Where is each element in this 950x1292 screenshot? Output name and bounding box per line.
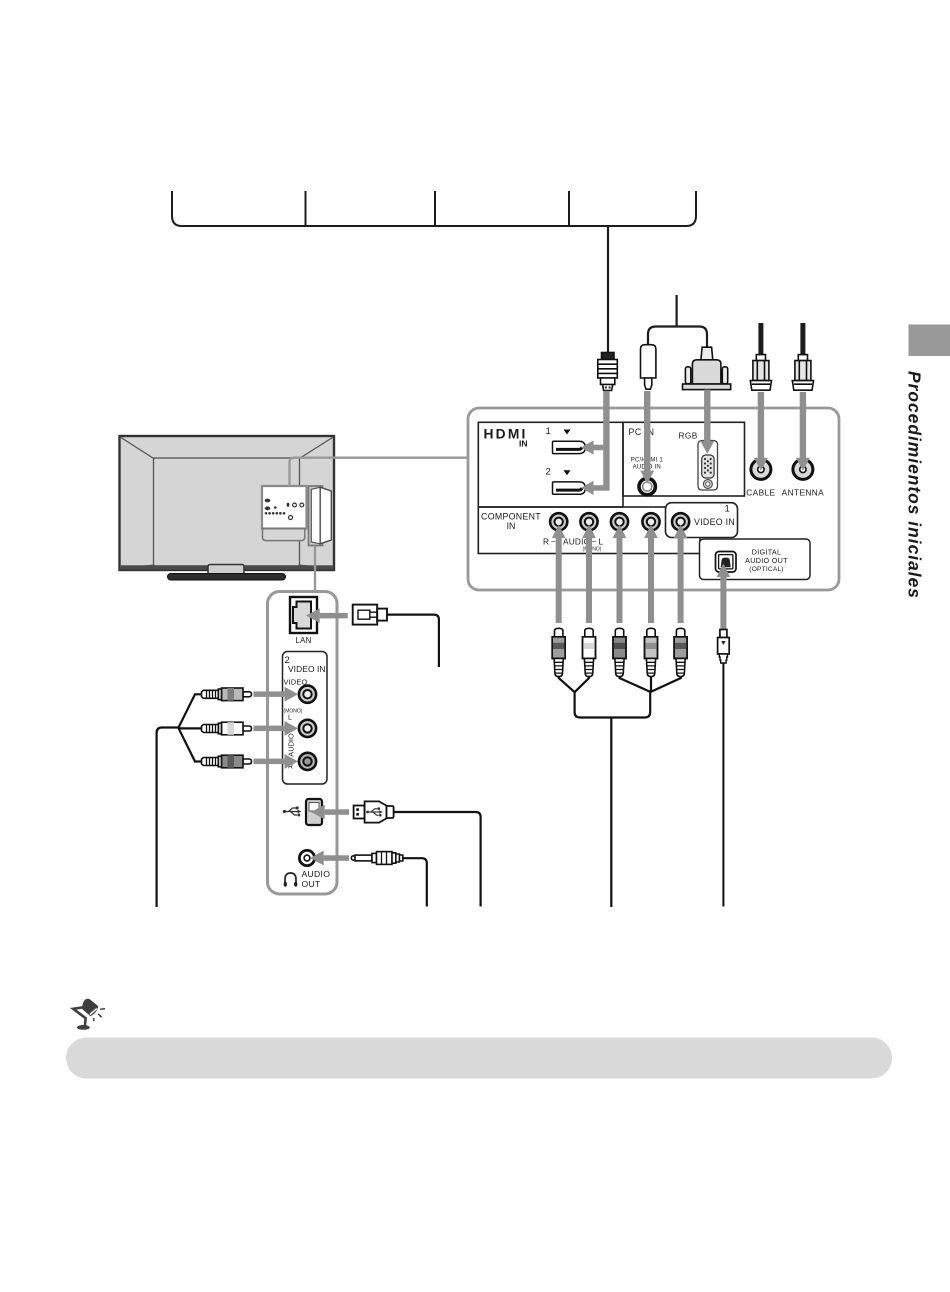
marker triangle 2 (564, 470, 571, 475)
svg-text:L: L (288, 715, 292, 722)
USB port (306, 799, 322, 825)
arrow CABLE (754, 392, 768, 471)
jack PC/HDMI1 AUDIO IN (639, 478, 655, 494)
jack VIDEO IN 1 (672, 513, 689, 530)
RCA plug L (vertical, white) (583, 628, 596, 676)
svg-text:COMPONENT: COMPONENT (481, 512, 541, 522)
svg-text:(MONO): (MONO) (284, 709, 303, 715)
RCA plug audio R dark (202, 755, 252, 768)
TV panel lower tab (262, 529, 304, 541)
chapter tab (909, 325, 950, 357)
arrow AUDIO R (254, 754, 299, 769)
arrow ANTENNA (796, 392, 810, 471)
arrow AUDIO OUT (310, 851, 349, 866)
HDMI plug (598, 353, 618, 391)
LAN port (290, 597, 317, 633)
svg-text:R: R (543, 537, 549, 547)
headphone icon (284, 873, 298, 887)
arrow component PR (644, 525, 658, 624)
svg-text:OUT: OUT (302, 879, 321, 889)
wire component cable bundle (559, 677, 681, 908)
optical plug (718, 630, 730, 664)
TV stand base (168, 574, 286, 581)
svg-text:AUDIO: AUDIO (287, 733, 296, 757)
jack CABLE (751, 459, 771, 479)
wire coax cable (ANTENNA) (800, 323, 805, 356)
headphone jack AUDIO OUT (299, 850, 314, 865)
svg-text:AUDIO OUT: AUDIO OUT (745, 556, 788, 565)
HDMI socket 1 (553, 441, 586, 453)
side panel outline (268, 592, 338, 895)
TV bottom band (121, 565, 333, 569)
wire callout TV to panel (290, 458, 469, 486)
svg-text:PC IN: PC IN (629, 427, 655, 437)
arrow component R (552, 525, 566, 624)
jack COMPONENT PR (642, 513, 659, 530)
jack AUDIO R (299, 753, 316, 770)
F-connector plug (CABLE) (750, 355, 771, 391)
svg-text:ANTENNA: ANTENNA (782, 488, 825, 498)
tip highlight bar (66, 1038, 892, 1079)
jack AUDIO L (MONO) (299, 720, 316, 737)
svg-text:VIDEO IN: VIDEO IN (288, 664, 326, 674)
TV stand pedestal (208, 565, 244, 575)
HDMI socket 2 (553, 482, 586, 494)
TV inner recess (154, 458, 300, 566)
HDMI IN box (478, 422, 623, 507)
RCA plug PR (vertical, light) (645, 628, 658, 676)
TV side flap frame (309, 486, 323, 546)
F-connector plug (ANTENNA) (792, 355, 813, 391)
wire USB cable (394, 812, 481, 907)
svg-text:LAN: LAN (295, 636, 311, 645)
ethernet plug (353, 605, 387, 625)
jack COMPONENT R (550, 513, 567, 530)
marker triangle 1 (564, 430, 571, 435)
arrow component L (582, 525, 596, 624)
svg-text:2: 2 (546, 467, 551, 478)
jack VIDEO 2 (299, 686, 316, 703)
arrow HDMI (to HDMI IN 1 and 2) (581, 391, 610, 495)
DIGITAL AUDIO OUT box (700, 539, 811, 580)
TV panel connector icons (265, 499, 304, 520)
wire ethernet cable (387, 615, 439, 667)
wire optical cable (722, 664, 724, 907)
arrow RGB (700, 390, 714, 454)
arrow AUDIO L (254, 721, 299, 736)
svg-text:(OPTICAL): (OPTICAL) (749, 566, 783, 573)
VGA plug (RGB) (683, 347, 731, 389)
arrow component PB (613, 525, 627, 624)
TV rear body (120, 436, 335, 570)
svg-text:–: – (592, 538, 596, 545)
svg-text:CABLE: CABLE (746, 488, 775, 498)
arrow VIDEO 2 (254, 687, 299, 702)
svg-text:RGB: RGB (679, 431, 698, 441)
svg-text:VIDEO IN: VIDEO IN (694, 517, 735, 527)
svg-text:Procedimientos iniciales: Procedimientos iniciales (905, 371, 925, 599)
VIDEO IN 2 box (283, 652, 328, 785)
audio miniplug (headphone) (351, 852, 403, 865)
arrow LAN (306, 608, 348, 623)
VIDEO IN 1 box (666, 503, 738, 538)
wire PC Y-cable (648, 295, 707, 348)
arrow USB (311, 805, 349, 820)
optical port DIGITAL AUDIO OUT (716, 552, 737, 573)
arrow PC/HDMI1 AUDIO IN (640, 391, 654, 484)
bracket (device group brace) (172, 191, 696, 226)
wire coax cable (CABLE) (758, 323, 763, 356)
PC IN / RGB box (623, 422, 745, 496)
RCA plug R (vertical) (552, 628, 565, 676)
svg-text:IN: IN (507, 521, 516, 531)
arrow video1 (674, 525, 688, 624)
RCA plug PB (vertical, dark) (613, 628, 626, 676)
RCA plug video (yellow) (202, 688, 252, 701)
svg-text:1: 1 (725, 504, 730, 515)
audio miniplug (PC audio, top) (641, 345, 656, 390)
RCA plug video1 (vertical) (674, 628, 687, 676)
svg-text:L: L (599, 537, 604, 547)
USB symbol (panel) (283, 807, 302, 817)
svg-text:(MONO): (MONO) (583, 547, 602, 553)
USB plug (354, 801, 394, 822)
jack COMPONENT L (580, 513, 597, 530)
VGA connector RGB (698, 441, 718, 491)
USB symbol (plug) (366, 807, 383, 816)
wire flap to side panel (314, 546, 316, 591)
COMPONENT IN box (478, 507, 700, 554)
svg-text:IN: IN (519, 439, 528, 449)
jack COMPONENT PB (611, 513, 628, 530)
wire AV cables to junction (157, 694, 202, 907)
TV bevel diagonals (121, 438, 333, 569)
svg-text:1: 1 (546, 426, 551, 437)
TV side flap door (311, 487, 331, 544)
rear panel outline (468, 408, 839, 590)
arrow DIGITAL AUDIO OUT (717, 564, 731, 630)
jack ANTENNA (793, 459, 813, 479)
tip lamp icon (73, 999, 105, 1030)
TV connector panel (white) (262, 486, 307, 529)
wire headphone cable (404, 858, 427, 906)
svg-text:AUDIO: AUDIO (302, 869, 331, 879)
svg-text:–: – (552, 538, 556, 545)
wire HDMI cable (607, 226, 609, 353)
RCA plug audio L white (202, 722, 252, 735)
